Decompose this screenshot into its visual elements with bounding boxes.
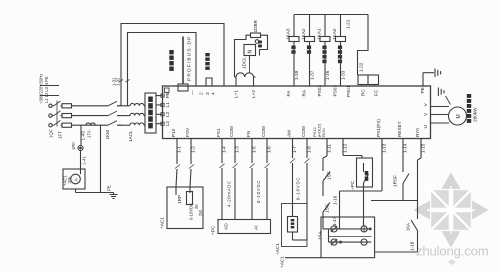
wire CT tap 1 lower xyxy=(80,151,82,175)
terminal RESET label xyxy=(397,121,402,137)
svg-text:1-22: 1-22 xyxy=(359,62,364,72)
pot label 2K xyxy=(194,204,199,209)
watermark small diamond xyxy=(448,259,456,265)
selector label 1SA xyxy=(318,230,323,240)
device box AD/AI xyxy=(218,220,271,234)
svg-text:PS03: PS03 xyxy=(332,85,337,97)
wire N stub xyxy=(40,85,59,87)
wire COM drop (meter) xyxy=(306,139,308,241)
terminal L+2 label xyxy=(251,90,256,98)
device label AI xyxy=(254,225,260,230)
svg-text:RESET: RESET xyxy=(397,121,402,137)
terminal label L2 xyxy=(165,111,170,117)
terminal PS03 wire number 1-33 xyxy=(340,70,345,80)
CT tap left upper xyxy=(80,125,82,145)
contactor 1KM contact L1 xyxy=(108,101,122,106)
label 1PA xyxy=(68,177,72,184)
panel box freq meter xyxy=(282,204,308,247)
wire 1KA3 coil top xyxy=(293,15,295,37)
terminal COM wire number 1-3 xyxy=(235,146,240,153)
wire L1 fuse to contactor xyxy=(72,105,109,107)
svg-text:AD: AD xyxy=(224,223,230,230)
svg-text:1TA: 1TA xyxy=(87,130,92,138)
wire filter to VFD L3 xyxy=(156,123,163,125)
svg-text:1KA3: 1KA3 xyxy=(286,28,291,40)
terminal FN wire number 1-5 xyxy=(252,146,257,153)
wire W to motor xyxy=(431,122,450,124)
terminal L2 tick xyxy=(161,113,164,116)
svg-text:1DCL: 1DCL xyxy=(242,57,247,69)
svg-text:N: N xyxy=(248,50,254,54)
contact box +PC xyxy=(357,158,373,187)
wire station supply xyxy=(285,257,321,259)
connector PROFIBUS plug xyxy=(178,84,188,91)
breaker 1QF pole L1 xyxy=(52,101,62,106)
breaker 1QF pole L3 xyxy=(52,120,62,125)
svg-text:L2: L2 xyxy=(165,111,170,117)
label 1-16 xyxy=(333,195,338,205)
wire filter to VFD PE xyxy=(156,95,163,97)
terminal - label xyxy=(191,90,196,95)
wire break 1-4 xyxy=(220,164,225,169)
source label +AC1 (meter) xyxy=(275,243,280,255)
contact PC output xyxy=(364,163,369,187)
svg-text:COM: COM xyxy=(261,126,266,137)
pot label 2W xyxy=(198,210,203,216)
svg-text:U: U xyxy=(423,125,429,129)
wire RY0 return xyxy=(375,251,418,253)
svg-text:COM: COM xyxy=(229,126,234,137)
svg-text:1PA': 1PA' xyxy=(71,141,76,150)
fuse 1FT pole L3 xyxy=(62,123,72,127)
terminal P10 wire number 1-1 xyxy=(177,146,182,153)
breaker label 1QF xyxy=(49,129,54,138)
relay label 1KA1 xyxy=(317,28,322,40)
svg-text:AI: AI xyxy=(254,225,260,230)
svg-text:COM: COM xyxy=(301,126,306,137)
svg-text:PS02: PS02 xyxy=(317,85,322,97)
potentiometer 1RP xyxy=(187,192,193,205)
terminal RY0 wire number 1-15 xyxy=(421,143,426,153)
terminal AM label xyxy=(286,130,291,137)
relay 1KA3 function label (CJK) xyxy=(291,46,295,54)
svg-text:1-21: 1-21 xyxy=(346,19,351,29)
svg-text:2: 2 xyxy=(199,92,205,95)
watermark logo xyxy=(413,172,488,247)
svg-text:—: — xyxy=(191,90,196,95)
svg-text:+AC1: +AC1 xyxy=(160,217,165,229)
svg-text:280kW: 280kW xyxy=(473,107,478,122)
svg-text:+AC1: +AC1 xyxy=(280,256,285,268)
terminal COM label xyxy=(301,126,306,137)
svg-text:PROFIBUS-DP: PROFIBUS-DP xyxy=(187,36,193,81)
terminal RUN extra label xyxy=(321,128,326,137)
svg-text:+AC1: +AC1 xyxy=(275,243,280,255)
terminal label L3 xyxy=(165,121,170,127)
svg-text:FS1: FS1 xyxy=(216,128,221,137)
svg-text:P10: P10 xyxy=(171,128,176,137)
inverter U1 outline xyxy=(163,86,431,139)
resistor 1DBR body xyxy=(251,33,261,38)
wire comm cable inner loop xyxy=(128,33,197,107)
svg-text:AM: AM xyxy=(286,130,291,137)
terminal V label xyxy=(423,112,429,116)
svg-text:2K: 2K xyxy=(194,204,199,209)
svg-text:2W: 2W xyxy=(198,210,203,216)
lamp HL4 xyxy=(361,239,367,245)
wire L3 fuse to contactor xyxy=(72,124,109,126)
wire 1-5 drop xyxy=(251,139,253,220)
module U2 PROFIBUS-DP xyxy=(183,36,193,84)
wire 1-4 drop xyxy=(221,139,223,220)
label L-41 xyxy=(82,155,87,164)
source label +AC1 (pot) xyxy=(160,217,165,229)
svg-text:PS01: PS01 xyxy=(346,85,351,97)
svg-text:PS12: PS12 xyxy=(312,126,317,137)
svg-text:zhulong.com: zhulong.com xyxy=(416,244,489,259)
contactor label 1KM xyxy=(105,130,110,140)
wire lamp row 1 xyxy=(323,228,371,230)
source label +PC (contact) xyxy=(350,180,355,190)
wire relay supply bus xyxy=(294,14,368,16)
wire 1-13 drop xyxy=(381,139,383,192)
ground VFD PE xyxy=(435,69,441,78)
wire PE riser xyxy=(423,73,434,86)
node 1-32 label xyxy=(116,77,121,86)
relay 1KA2 coil xyxy=(305,37,315,42)
svg-text:4: 4 xyxy=(211,92,217,95)
inductor 1DCL choke xyxy=(235,73,256,77)
svg-text:~380/220V,50Hz: ~380/220V,50Hz xyxy=(39,74,44,104)
svg-text:+PC: +PC xyxy=(350,180,355,190)
wire break marks on comm wires xyxy=(119,80,130,83)
CT 1TA winding xyxy=(86,123,95,125)
svg-text:1-16: 1-16 xyxy=(333,195,338,205)
terminal W label xyxy=(423,103,429,107)
relay label 1KA2 xyxy=(301,28,306,40)
node 1-31 label xyxy=(112,77,117,86)
svg-text:FA: FA xyxy=(286,90,291,97)
svg-text:1PA: 1PA xyxy=(68,177,72,184)
wire L+2 riser xyxy=(253,77,255,86)
svg-text:1RP: 1RP xyxy=(177,195,182,204)
source label +PC (AI) xyxy=(211,225,216,235)
svg-text:4-20mADC: 4-20mADC xyxy=(227,180,232,207)
lamp HL1 xyxy=(331,226,337,232)
panel box control station xyxy=(321,217,375,258)
svg-text:RY0: RY0 xyxy=(415,128,420,137)
terminal FA wire number 1-39 xyxy=(294,70,299,80)
relay 1KA3 coil xyxy=(289,37,299,42)
svg-text:1-17: 1-17 xyxy=(332,216,337,226)
wire 1-16 drop xyxy=(339,191,341,229)
wire U to motor xyxy=(431,106,450,108)
wire break FSV xyxy=(189,165,194,169)
ground motor frame xyxy=(438,88,450,105)
svg-text:1FT: 1FT xyxy=(58,131,63,139)
supply label L1 L2 L3 N PE xyxy=(44,76,49,103)
wire filter to VFD L2 xyxy=(156,113,163,115)
relay 1KA0 function label (CJK) xyxy=(338,46,342,64)
wire DBR right leg xyxy=(260,35,268,55)
terminal label L1 xyxy=(165,102,170,108)
breaker 1QF pole L2 xyxy=(52,111,62,116)
terminal RY0 label xyxy=(415,128,420,137)
device label AD xyxy=(224,223,230,230)
terminal RA label xyxy=(301,89,306,96)
signal label 0-10VDC (meter) xyxy=(296,177,301,200)
svg-text:M: M xyxy=(456,114,462,118)
motor label (CJK) xyxy=(467,94,471,123)
potentiometer label 1RP xyxy=(177,195,182,204)
svg-text:FSV: FSV xyxy=(185,127,190,137)
wire break AM xyxy=(290,159,295,164)
terminal L3 tick xyxy=(161,122,164,125)
source label +AC1 (station) xyxy=(280,256,285,268)
wire station left rail xyxy=(328,229,330,242)
svg-text:L-41: L-41 xyxy=(82,155,87,164)
terminal FSV label xyxy=(185,127,190,137)
terminal FA label xyxy=(286,90,291,97)
label 1-17 xyxy=(332,216,337,226)
wire 1-11 drop xyxy=(323,139,327,172)
wire 1-3 drop xyxy=(234,139,236,220)
wire 1KA2 coil top xyxy=(309,15,311,37)
terminal PS02 wire number 1-35 xyxy=(325,70,330,80)
terminal PS12 extra label (HOLD) xyxy=(317,123,321,137)
terminal PS02 label xyxy=(317,85,322,97)
terminal L1 supply xyxy=(49,104,52,107)
wire FC stub xyxy=(374,85,376,87)
terminal COM label xyxy=(261,126,266,137)
wire break COM meter xyxy=(305,159,310,164)
svg-text:1RSF: 1RSF xyxy=(393,175,398,187)
reactor 1ACL winding L2 xyxy=(130,113,144,115)
wire lamp row mid xyxy=(329,236,372,238)
svg-text:3: 3 xyxy=(205,92,211,95)
svg-text:1ACL: 1ACL xyxy=(128,130,133,142)
wire DBR left leg xyxy=(235,35,251,77)
switch label 1SF xyxy=(327,171,332,180)
node label 1-22 xyxy=(359,62,364,72)
wire 1KA3 coil to terminal xyxy=(293,42,295,87)
motor label 280kW xyxy=(473,107,478,122)
terminal FS1 wire number 1-4 xyxy=(222,146,227,153)
wire L+1 riser xyxy=(235,77,237,86)
terminal FC label xyxy=(374,89,379,96)
connector notch on VFD edge xyxy=(206,78,212,86)
svg-text:1KA: 1KA xyxy=(406,223,411,231)
switch 1RSF xyxy=(403,174,409,201)
terminal PS03 label xyxy=(332,85,337,97)
node bus label 1-21 xyxy=(346,19,351,29)
terminal FSV wire number 1-2 xyxy=(191,146,196,153)
terminal PE label xyxy=(420,87,425,93)
relay 1KA1 coil xyxy=(320,37,330,42)
terminal RC label xyxy=(361,89,366,96)
wire L2 fuse to contactor xyxy=(72,115,109,117)
svg-text:L+2: L+2 xyxy=(251,90,256,98)
wire lamp row 2 xyxy=(329,241,372,243)
terminal PS12 label xyxy=(312,126,317,137)
relay 1KA2 function label (CJK) xyxy=(307,46,311,54)
wire break 1-6 xyxy=(265,164,270,169)
label 1-18 xyxy=(410,241,415,251)
motor M1 xyxy=(449,107,467,125)
svg-text:0-10VDC: 0-10VDC xyxy=(189,203,194,220)
svg-text:1KA0: 1KA0 xyxy=(332,28,337,40)
relay 1KA0 coil xyxy=(336,37,346,42)
wire 1-14 drop xyxy=(402,139,404,173)
wire meter bottom link xyxy=(293,232,308,240)
wire break P10 xyxy=(175,165,180,169)
svg-text:RC: RC xyxy=(361,89,366,96)
terminal U label xyxy=(423,125,429,129)
terminal PS1(FS) wire number 1-13 xyxy=(382,143,387,153)
filter Z1 label (CJK) xyxy=(148,97,153,129)
wire RC stub xyxy=(361,85,363,87)
fuse label 1FT xyxy=(58,131,63,139)
terminal PS01 label xyxy=(346,85,351,97)
wire reset bus xyxy=(371,200,418,202)
resistor label 1DBR xyxy=(253,19,258,32)
wire V to motor xyxy=(431,114,449,116)
terminal FS1 label xyxy=(216,128,221,137)
node junction circle xyxy=(255,40,259,44)
wire L3 reactor to filter xyxy=(144,124,145,126)
relay 1KA1 function label (CJK) xyxy=(322,46,326,64)
wire filter to VFD L1 xyxy=(156,104,163,106)
fuse 1FT pole L1 xyxy=(62,104,72,108)
terminal 3 label xyxy=(205,92,211,95)
wire bus drop to RC xyxy=(358,15,369,76)
wire 1-13 to 1-16 xyxy=(340,190,383,192)
terminal 2 label xyxy=(199,92,205,95)
terminal RA wire number 1-37 xyxy=(309,70,314,80)
terminal COM wire number 1-6 xyxy=(267,146,272,153)
contact label (dark) xyxy=(365,171,369,181)
terminal wire number 1-11 xyxy=(327,144,332,153)
wire 1KA2 coil to terminal xyxy=(309,42,311,87)
label 1DB (dark) xyxy=(258,41,262,48)
svg-text:L1: L1 xyxy=(165,102,170,108)
svg-text:+PC: +PC xyxy=(211,225,216,235)
wire PC box drop xyxy=(363,187,365,226)
relay label 1KA3 xyxy=(286,28,291,40)
contact 1KM aux xyxy=(411,220,418,252)
svg-text:RUN: RUN xyxy=(321,128,326,137)
wire CT tap 2 xyxy=(100,125,102,192)
svg-text:FN: FN xyxy=(246,131,251,137)
label +AC1 (ammeter) xyxy=(63,175,68,186)
ground PE (ammeter) xyxy=(110,193,118,199)
svg-text:FC: FC xyxy=(374,89,379,96)
svg-text:PE: PE xyxy=(107,185,112,191)
wire 1KA0 coil to terminal xyxy=(340,42,342,87)
terminal wire number 1-12 xyxy=(343,143,348,153)
fuse 1FT pole L2 xyxy=(62,114,72,118)
svg-text:1KM: 1KM xyxy=(105,130,110,140)
pot label 0-10VDC xyxy=(189,203,194,220)
wire 1DB box to choke xyxy=(249,56,251,73)
terminal PS1(FS) label xyxy=(376,119,381,137)
svg-text:L3: L3 xyxy=(165,121,170,127)
terminal COM wire number 1-8 xyxy=(307,146,312,153)
supply label ~380/220V 50Hz xyxy=(39,74,44,104)
svg-text:1QF: 1QF xyxy=(49,129,54,138)
contactor 1KM contact L3 xyxy=(108,121,122,126)
wire 1-15 drop xyxy=(418,139,422,220)
svg-text:1SA: 1SA xyxy=(318,230,323,240)
terminal RESET wire number 1-14 xyxy=(403,143,408,153)
svg-text:V: V xyxy=(423,103,429,107)
CT label L-43 xyxy=(81,131,86,140)
contactor 1KM contact L2 xyxy=(108,111,122,116)
terminal COM label xyxy=(229,126,234,137)
wire AM drop xyxy=(292,139,294,217)
terminal FN label xyxy=(246,131,251,137)
meter 1FP xyxy=(288,217,298,233)
svg-text:L-43: L-43 xyxy=(81,131,86,140)
wire L1 contactor to reactor xyxy=(117,105,130,107)
svg-text:1SF: 1SF xyxy=(327,171,332,180)
terminal 4 label xyxy=(211,92,217,95)
switch 1SF xyxy=(323,172,330,197)
svg-text:A: A xyxy=(74,178,80,182)
label 1PA' xyxy=(71,141,76,150)
wire PE stub xyxy=(40,95,59,97)
terminal label xyxy=(0,0,1,1)
wire L2 contactor to reactor xyxy=(117,115,130,117)
wire 1KA1 coil top xyxy=(324,15,326,37)
wire L2 reactor to filter xyxy=(144,115,145,117)
wire FSV drop xyxy=(190,139,191,188)
breaker 1QF tie bar xyxy=(56,101,58,127)
svg-text:L+1: L+1 xyxy=(234,90,239,98)
wire P10 drop xyxy=(176,139,177,188)
wire break 1-3 xyxy=(233,164,238,169)
wire 1-6 drop xyxy=(266,139,268,220)
reactor 1ACL winding L1 xyxy=(130,103,144,105)
inductor label 1DCL xyxy=(242,57,247,69)
terminal AM wire number 1-7 xyxy=(292,146,297,153)
svg-text:1KA1: 1KA1 xyxy=(317,28,322,40)
reactor label 1ACL xyxy=(128,130,133,142)
watermark text zhulong.com xyxy=(416,244,489,259)
terminal PE tick xyxy=(161,94,164,97)
svg-text:PS1(FS): PS1(FS) xyxy=(376,119,381,137)
node dot row1 xyxy=(369,228,371,230)
terminal L2 supply xyxy=(49,114,52,117)
filter Z1 box xyxy=(145,93,156,133)
connector circle 1PA' xyxy=(78,146,83,151)
terminal PE notch box xyxy=(165,88,170,93)
panel box speed pot xyxy=(167,187,203,229)
wire pot feeds inside xyxy=(176,187,190,195)
wire comm cable outer loop xyxy=(121,24,224,107)
svg-text:1DBR: 1DBR xyxy=(253,19,258,32)
contact label 1KM aux xyxy=(406,223,411,231)
switch 1SS xyxy=(323,203,330,230)
panel box ammeter xyxy=(63,169,85,189)
wire L3 contactor to reactor xyxy=(117,124,130,126)
wire ammeter bottom xyxy=(76,189,114,193)
svg-text:1-18: 1-18 xyxy=(410,241,415,251)
terminal P10 label xyxy=(171,128,176,137)
lamp HL3 xyxy=(331,239,337,245)
relay label 1KA0 xyxy=(332,28,337,40)
svg-text:L1 L2 L3 N PE: L1 L2 L3 N PE xyxy=(44,76,49,103)
